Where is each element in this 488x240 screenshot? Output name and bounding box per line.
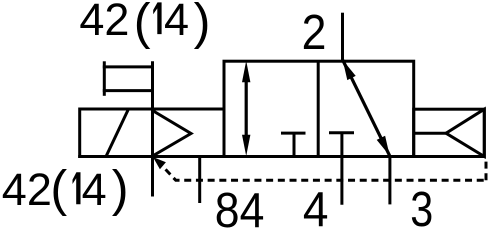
svg-text:42: 42 <box>2 164 52 215</box>
wire port 3 <box>388 157 391 205</box>
svg-text:42: 42 <box>79 0 129 45</box>
wire port 84 <box>198 157 201 204</box>
svg-text:3: 3 <box>410 181 433 228</box>
pilot amplifier triangle <box>153 111 192 157</box>
solenoid coil box <box>78 108 224 159</box>
label 42(14) bottom pilot port <box>2 160 129 217</box>
flow path diagonal arrow 2 to 3 <box>343 60 390 156</box>
svg-text:): ) <box>112 160 129 217</box>
svg-text:4: 4 <box>303 183 329 228</box>
svg-text:2: 2 <box>302 4 327 60</box>
svg-text:(: ( <box>50 160 67 217</box>
label 42 (14) top pilot port <box>79 0 210 50</box>
blocked port T right position / port 4 stem <box>329 133 354 205</box>
valve body squares <box>224 61 414 156</box>
pneumatic return box <box>414 109 485 156</box>
svg-text:(: ( <box>134 0 151 50</box>
svg-text:4: 4 <box>82 164 107 215</box>
dashed pilot line riser to return box <box>485 158 488 181</box>
dashed pilot line <box>164 167 487 180</box>
svg-text:4: 4 <box>164 0 189 45</box>
double headed arrow in left position <box>242 61 250 156</box>
svg-text:): ) <box>194 0 211 50</box>
pilot solenoid ladder symbol <box>103 61 154 96</box>
pneumatic return triangle <box>446 109 484 156</box>
wire port 2 <box>341 13 344 62</box>
blocked port T left position <box>281 133 306 156</box>
pilot line arrowhead at junction <box>153 157 166 169</box>
svg-text:84: 84 <box>215 182 265 228</box>
wire pilot vertical / port 42(14) line <box>151 61 154 196</box>
